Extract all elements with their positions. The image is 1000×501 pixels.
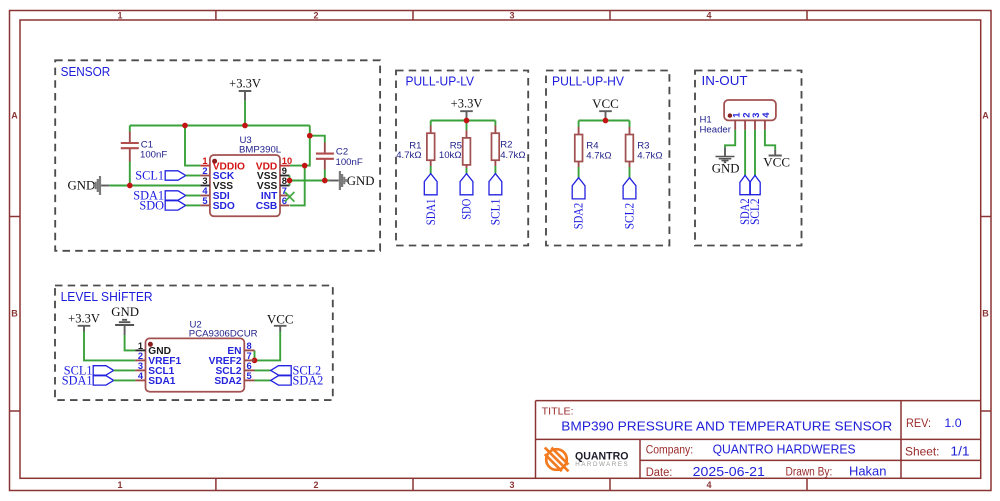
H1 pin 2 (741, 113, 752, 130)
H1 pin-1 dot (728, 113, 732, 117)
svg-text:+3.3V: +3.3V (229, 77, 261, 91)
global label SCL1 (sensor) (135, 169, 185, 183)
svg-text:4: 4 (761, 112, 772, 118)
frame column ticks bottom (216, 478, 807, 490)
svg-text:B: B (982, 309, 989, 319)
U3 pin 2 SCK (200, 166, 234, 182)
svg-text:1: 1 (117, 10, 122, 20)
svg-text:SCL1: SCL1 (489, 199, 503, 226)
wire pin1 to GND (725, 130, 735, 148)
svg-text:2: 2 (138, 351, 143, 361)
junction VSS tie (287, 178, 293, 184)
svg-text:SDA1: SDA1 (424, 199, 438, 226)
wire VSS to GND right (290, 180, 330, 182)
global label SCL1 (pull-up-lv) (489, 174, 503, 226)
wire GND to pin1 (125, 335, 136, 350)
wire SDA1 to pin4 (186, 195, 201, 197)
svg-text:5: 5 (247, 371, 252, 381)
wire pin3 down (754, 130, 756, 176)
U3 pin 1 VDDIO (200, 156, 245, 172)
frame row ticks left (10, 217, 21, 412)
U2 pin 6 SCL2 (215, 361, 254, 377)
SENSOR block dashed border (55, 60, 380, 251)
svg-text:6: 6 (247, 361, 252, 371)
svg-text:Drawn By:: Drawn By: (786, 467, 833, 479)
wire pin9-pin8 tie (289, 176, 291, 186)
wire pin10 to pin6 (290, 166, 305, 206)
global label SDA1 (level shifter) (62, 374, 114, 388)
junction C2 top branch (307, 133, 313, 139)
wire +3.3V rail (pull-up-lv) (431, 118, 496, 130)
svg-text:BMP390 PRESSURE AND TEMPERATUR: BMP390 PRESSURE AND TEMPERATURE SENSOR (561, 418, 892, 433)
junction C2 bottom (322, 178, 328, 184)
U2 pin-1 dot (148, 342, 153, 347)
LEVEL SHIFTER block dashed border (55, 286, 333, 401)
svg-text:1/1: 1/1 (950, 444, 969, 459)
junction VREF2 (252, 358, 258, 364)
svg-text:2025-06-21: 2025-06-21 (693, 465, 765, 479)
svg-text:2: 2 (202, 166, 207, 176)
power +3.3V (level shifter) (68, 312, 100, 332)
IC U3 BMP390L outline (210, 155, 280, 216)
svg-text:PULL-UP-HV: PULL-UP-HV (552, 73, 624, 88)
power +3.3V (pull-up-lv) (451, 97, 483, 118)
svg-text:B: B (11, 309, 18, 319)
svg-text:7: 7 (247, 351, 252, 361)
svg-text:1.0: 1.0 (944, 416, 962, 430)
svg-text:SDA1: SDA1 (62, 374, 93, 388)
power +3.3V (sensor) (229, 77, 261, 101)
U3 pin 3 VSS (200, 176, 233, 192)
svg-text:REV:: REV: (906, 416, 931, 430)
U3 pin 4 SDI (200, 186, 229, 202)
global label SCL1 (level shifter) (64, 364, 114, 378)
wire pin6 to SCL2 label (255, 369, 271, 371)
global label SDA2 (level shifter) (271, 374, 324, 388)
wire VCC down to VREF2 (255, 332, 281, 361)
svg-text:SCL2: SCL2 (623, 203, 637, 230)
wire right drop to pin10 (290, 126, 310, 166)
ground GND (sensor right) (329, 171, 374, 190)
U3 pin 7 INT (261, 186, 290, 202)
svg-text:SDO: SDO (460, 199, 474, 220)
svg-text:5: 5 (202, 196, 207, 206)
ground GND (in-out) (712, 148, 740, 176)
wire pin2 down (744, 130, 746, 176)
svg-text:8: 8 (247, 341, 252, 351)
svg-text:A: A (982, 111, 989, 121)
capacitor C1 (121, 126, 168, 186)
U3 pin 10 VDD (256, 156, 292, 172)
U2 pin 4 SDA1 (135, 371, 176, 387)
ground GND (level shifter) (111, 305, 139, 335)
PULL-UP-HV block dashed border (546, 71, 669, 246)
svg-text:9: 9 (282, 166, 287, 176)
wire left drop to pin1 (185, 126, 200, 166)
svg-text:4.7kΩ: 4.7kΩ (586, 150, 611, 161)
svg-text:3: 3 (138, 361, 143, 371)
svg-text:3: 3 (509, 480, 514, 490)
svg-text:SDA2: SDA2 (214, 376, 242, 387)
junction +3.3V rail (464, 118, 470, 124)
svg-text:SCL2: SCL2 (748, 198, 762, 225)
global label SDA2 (in-out) (738, 175, 752, 225)
svg-text:SCL1: SCL1 (135, 169, 164, 183)
wire SDA1 to pin4 (114, 379, 136, 381)
svg-text:1: 1 (138, 341, 143, 351)
wire +3.3V to pin2 (84, 332, 135, 361)
svg-text:Hakan: Hakan (849, 464, 886, 478)
svg-text:3: 3 (202, 176, 207, 186)
frame column ticks top (216, 11, 807, 21)
svg-text:3: 3 (509, 10, 514, 20)
header H1 outline (724, 100, 776, 120)
svg-text:SDA2: SDA2 (293, 374, 324, 388)
U3 pin 8 VSS (257, 176, 290, 192)
title block border lines (536, 401, 981, 479)
resistor R1 (396, 126, 434, 174)
svg-text:4.7kΩ: 4.7kΩ (637, 150, 662, 161)
power VCC (pull-up-hv) (592, 96, 619, 118)
junction VCC rail (603, 118, 609, 124)
U3 pin 6 CSB (256, 196, 290, 212)
U2 pin 3 SCL1 (135, 361, 174, 377)
IN-OUT block dashed border (695, 71, 802, 246)
svg-text:4: 4 (706, 480, 711, 490)
svg-text:Date:: Date: (646, 467, 673, 479)
resistor R5 (439, 130, 471, 173)
global label SDA1 (sensor) (133, 189, 185, 203)
wire GND rail left (sensor) (109, 185, 200, 187)
svg-text:Sheet:: Sheet: (905, 444, 940, 458)
H1 pin 1 (731, 112, 742, 130)
wire top rail (sensor) (130, 125, 310, 127)
wire pin4 to VCC (765, 130, 775, 150)
svg-text:PCA9306DCUR: PCA9306DCUR (189, 329, 258, 340)
svg-text:+3.3V: +3.3V (451, 97, 483, 111)
wire pin5 to SDA2 label (255, 379, 271, 381)
svg-text:VCC: VCC (763, 154, 790, 169)
svg-text:LEVEL SHİFTER: LEVEL SHİFTER (61, 289, 153, 304)
ground GND (sensor left) (68, 176, 110, 195)
H1 pin 4 (761, 112, 772, 130)
U2 pin 7 VREF2 (209, 351, 255, 367)
svg-text:100nF: 100nF (336, 157, 363, 168)
svg-text:SENSOR: SENSOR (61, 64, 111, 79)
global label SDA2 (pull-up-hv) (572, 178, 586, 230)
U3 pin-1 dot (212, 159, 217, 164)
svg-text:4.7kΩ: 4.7kΩ (500, 150, 525, 161)
U2 pin 2 VREF1 (135, 351, 181, 367)
global label SDO (sensor) (139, 199, 185, 213)
svg-text:Company:: Company: (646, 444, 693, 456)
svg-text:GND: GND (68, 179, 96, 193)
svg-text:IN-OUT: IN-OUT (702, 73, 748, 88)
wire C2 branch (310, 136, 325, 143)
junction C1 bottom (127, 183, 133, 189)
svg-text:1: 1 (202, 156, 207, 166)
company logo icon (541, 443, 573, 475)
junction top rail pin1 drop (182, 123, 188, 129)
svg-text:10: 10 (282, 156, 292, 166)
wire EN to VREF2 tie (254, 350, 256, 360)
svg-text:QUANTRO HARDWERES: QUANTRO HARDWERES (713, 442, 856, 457)
svg-text:2: 2 (313, 10, 318, 20)
svg-text:GND: GND (111, 305, 139, 319)
U3 pin 9 VSS (257, 166, 290, 182)
junction top rail +3.3V (242, 123, 248, 129)
U2 pin 8 EN (227, 341, 254, 357)
no-connect X on pin 7 (285, 192, 295, 202)
H1 pin 3 (751, 113, 762, 130)
svg-text:1: 1 (117, 480, 122, 490)
global label SDA1 (pull-up-lv) (424, 174, 438, 226)
wire SCL1 to pin3 (114, 369, 136, 371)
svg-text:100nF: 100nF (140, 149, 167, 160)
global label SCL2 (in-out) (748, 175, 762, 225)
svg-text:4: 4 (202, 186, 208, 196)
svg-text:4.7kΩ: 4.7kΩ (396, 150, 421, 161)
wire SDO to pin5 (186, 204, 201, 206)
svg-text:PULL-UP-LV: PULL-UP-LV (406, 73, 475, 88)
power VCC (in-out) (763, 150, 790, 170)
svg-text:8: 8 (282, 176, 287, 186)
svg-text:VCC: VCC (267, 312, 294, 327)
frame row ticks right (981, 217, 991, 412)
svg-text:SDA2: SDA2 (572, 203, 586, 230)
resistor R3 (626, 127, 663, 178)
wire VCC rail (pull-up-hv) (579, 118, 630, 127)
svg-text:SDO: SDO (213, 201, 235, 212)
svg-text:Header: Header (700, 125, 732, 136)
U3 pin 5 SDO (200, 196, 234, 212)
svg-text:10kΩ: 10kΩ (439, 150, 462, 161)
svg-text:A: A (11, 111, 18, 121)
svg-text:+3.3V: +3.3V (68, 312, 100, 326)
svg-text:VCC: VCC (592, 96, 619, 111)
global label SDO (pull-up-lv) (460, 174, 474, 220)
wire SCL1 to pin2 (186, 175, 201, 177)
U2 pin 1 GND (135, 341, 171, 357)
resistor R4 (575, 127, 612, 178)
svg-text:4: 4 (706, 10, 711, 20)
svg-text:R2: R2 (500, 139, 512, 150)
svg-text:TITLE:: TITLE: (542, 405, 574, 417)
global label SCL2 (pull-up-hv) (623, 178, 637, 230)
svg-text:GND: GND (347, 174, 375, 188)
power VCC (level shifter) (267, 312, 294, 332)
svg-text:2: 2 (313, 480, 318, 490)
capacitor C2 (316, 143, 363, 181)
svg-text:GND: GND (712, 161, 740, 175)
PULL-UP-LV block dashed border (396, 71, 528, 246)
resistor R2 (492, 126, 526, 174)
svg-text:SDO: SDO (139, 199, 164, 213)
svg-text:4: 4 (138, 371, 144, 381)
svg-text:CSB: CSB (256, 201, 278, 212)
wire +3.3V drop (sensor) (244, 101, 246, 126)
svg-text:HARDWARES: HARDWARES (575, 461, 628, 468)
svg-text:SDA1: SDA1 (148, 376, 176, 387)
svg-text:BMP390L: BMP390L (239, 144, 282, 155)
global label SCL2 (level shifter) (271, 364, 322, 378)
junction pin10 (302, 163, 308, 169)
IC U2 PCA9306DCUR outline (146, 338, 245, 391)
U2 pin 5 SDA2 (214, 371, 254, 387)
